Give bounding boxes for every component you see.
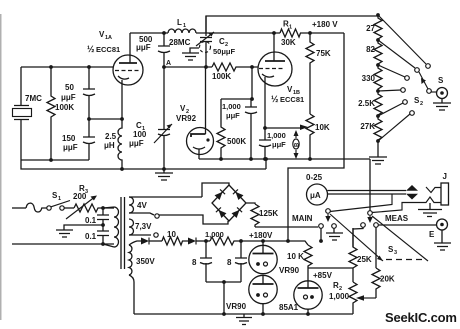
node junction 27/82 bbox=[376, 38, 380, 42]
bridge diode UL bbox=[215, 189, 226, 200]
svg-text:50μμF: 50μμF bbox=[213, 47, 236, 56]
node junction grid/1000pF bbox=[250, 65, 254, 69]
jack spring lower bbox=[421, 197, 441, 203]
resistor 10K psu bbox=[304, 245, 312, 281]
svg-text:MAIN: MAIN bbox=[292, 214, 313, 223]
svg-text:1,000: 1,000 bbox=[205, 230, 224, 239]
ground (E terminal) bbox=[434, 230, 451, 250]
ground (psu rail) bbox=[236, 314, 252, 325]
svg-text:1: 1 bbox=[289, 25, 292, 31]
capacitor C2 50uuF variable bbox=[200, 16, 212, 67]
switch S3 link diagonal right bbox=[372, 216, 428, 261]
svg-text:1A: 1A bbox=[105, 35, 112, 41]
node junction filter cap 2 bbox=[239, 239, 243, 243]
wiper arrow MEAS bbox=[369, 216, 371, 218]
capacitor 0.1 (lower) bbox=[97, 231, 109, 244]
resistor 82 bbox=[374, 40, 382, 65]
node junction 75K top bbox=[308, 31, 312, 35]
tube V1A 1/2 ECC81 bbox=[113, 55, 143, 85]
wiper arrow MAIN bbox=[327, 214, 329, 217]
wire cathode bus V2 bbox=[199, 158, 370, 160]
svg-text:1: 1 bbox=[58, 196, 61, 202]
measure arrows (B) bbox=[295, 134, 297, 156]
jack spring upper bbox=[426, 187, 441, 193]
wire MEAS right to 20K bbox=[375, 228, 377, 269]
wire RF takeoff rail bbox=[206, 16, 378, 33]
svg-text:28MC: 28MC bbox=[169, 38, 191, 47]
node junction 288 bbox=[286, 239, 290, 243]
resistor 20K bbox=[372, 268, 380, 298]
resistor 100K (grid leak) bbox=[47, 67, 55, 160]
contact MEAS left bbox=[361, 223, 366, 228]
svg-text:L: L bbox=[177, 18, 182, 27]
switch S1 bbox=[47, 206, 51, 210]
node junction 500K bottom bbox=[219, 157, 223, 161]
contact S2 pos6 bbox=[410, 111, 415, 116]
jack contact arrow up bbox=[406, 185, 418, 191]
ground (line filter) bbox=[56, 225, 103, 237]
svg-text:μμF: μμF bbox=[129, 139, 144, 148]
svg-text:μμF: μμF bbox=[272, 140, 286, 149]
inductor L1 28MC bbox=[168, 29, 196, 33]
contact S2 pos2 bbox=[415, 68, 420, 73]
wire node A to grid V1B bbox=[164, 66, 212, 68]
tube VR90 lower bbox=[249, 275, 277, 303]
resistor 1000 (filter) bbox=[210, 237, 288, 245]
svg-text:82: 82 bbox=[366, 45, 375, 54]
ground (main bus) bbox=[155, 169, 173, 180]
svg-text:μμF: μμF bbox=[63, 143, 78, 152]
svg-text:1,000: 1,000 bbox=[329, 292, 350, 301]
svg-text:10K: 10K bbox=[315, 123, 330, 132]
wire MEAS to E bbox=[378, 224, 437, 226]
svg-text:20K: 20K bbox=[380, 275, 395, 284]
wire 125K to MAIN contact bbox=[255, 226, 318, 228]
wire grid bus left (V1A grid) bbox=[21, 66, 113, 68]
SECTION: meter and switches bbox=[292, 159, 451, 268]
wire 350V bottom return bbox=[129, 275, 134, 314]
wire tap diagonal 6 bbox=[378, 114, 410, 141]
node junction 1000pF bottom bbox=[249, 157, 253, 161]
svg-text:B: B bbox=[295, 142, 301, 147]
svg-text:8: 8 bbox=[192, 258, 197, 267]
transformer T1 7.3V winding bbox=[129, 219, 134, 235]
SECTION: power supply bottom-left bbox=[12, 183, 353, 325]
switch S2 wiper bbox=[427, 89, 432, 94]
svg-text:2.5K: 2.5K bbox=[358, 99, 375, 108]
wire C1 branch bbox=[163, 67, 165, 129]
svg-text:7,3V: 7,3V bbox=[135, 222, 152, 231]
wire to ground bus bbox=[21, 160, 266, 169]
contact MAIN pole bbox=[326, 209, 331, 214]
bridge diode LR bbox=[232, 207, 243, 218]
node junction caps return bbox=[222, 312, 226, 316]
svg-text:½: ½ bbox=[271, 94, 279, 104]
transformer T1 4V winding bbox=[129, 197, 134, 213]
wire to transformer primary top bbox=[103, 207, 114, 209]
contact MAIN right bbox=[332, 224, 337, 229]
capacitor 8uF no2 bbox=[235, 241, 247, 282]
svg-text:μH: μH bbox=[104, 141, 115, 150]
bridge rectifier input wire 1 bbox=[202, 183, 229, 197]
node junction C1 bottom bbox=[162, 167, 166, 171]
SECTION: oscillator top-left bbox=[13, 16, 379, 180]
node junction rail/chain top bbox=[376, 13, 380, 17]
svg-text:μμF: μμF bbox=[226, 111, 240, 120]
bridge rectifier input wire 2 bbox=[159, 215, 228, 224]
node junction 82/330 bbox=[376, 63, 380, 67]
wiper arrow R2 bbox=[362, 297, 376, 299]
wire 350V to rectifier bbox=[129, 241, 141, 245]
resistor 27K bbox=[374, 116, 382, 141]
contact MEAS pole bbox=[368, 211, 373, 216]
wire mains line bottom bbox=[12, 243, 114, 245]
wire +180 feed down right bbox=[288, 33, 344, 241]
SECTION: S2 attenuator right bbox=[358, 13, 451, 164]
resistor 27 bbox=[374, 15, 382, 40]
tube V2 VR92 reactance bbox=[187, 128, 214, 155]
svg-text:0-25: 0-25 bbox=[306, 173, 323, 182]
wire tap diagonal 1 bbox=[378, 15, 426, 64]
svg-text:500K: 500K bbox=[227, 137, 246, 146]
node junction caps mid bbox=[101, 223, 105, 227]
svg-text:125K: 125K bbox=[259, 209, 278, 218]
svg-text:10 K: 10 K bbox=[287, 252, 304, 261]
wire MEAS pole to jack lower bbox=[372, 203, 421, 213]
tube 85A1 bbox=[294, 281, 322, 309]
svg-text:4V: 4V bbox=[137, 201, 147, 210]
svg-text:3: 3 bbox=[394, 250, 397, 256]
ground (C2 rotor) bbox=[182, 48, 199, 60]
resistor 100K (V1B grid stopper) bbox=[212, 63, 258, 71]
resistor 500K bbox=[217, 99, 225, 159]
node junction filter cap 1 bbox=[204, 239, 208, 243]
svg-text:VR90: VR90 bbox=[226, 302, 247, 311]
switch S3 link dashed bbox=[386, 259, 424, 261]
diode D2 bbox=[188, 238, 196, 245]
wire tap diagonal 5 bbox=[378, 103, 403, 116]
transformer T1 primary bbox=[114, 207, 119, 247]
resistor R1 30K bbox=[280, 29, 344, 37]
node junction cathode V1B bbox=[263, 126, 267, 130]
node junction 50/150 bbox=[87, 117, 91, 121]
svg-text:7MC: 7MC bbox=[25, 94, 42, 103]
node junction line bottom bbox=[101, 242, 105, 246]
capacitor 0.1 (upper) bbox=[97, 208, 109, 231]
fuse/lamp bbox=[26, 203, 47, 212]
wire cathode bus to MEAS pole bbox=[369, 159, 371, 211]
wire 500K top bbox=[221, 67, 252, 99]
svg-text:150: 150 bbox=[62, 134, 76, 143]
wire mains line top bbox=[12, 207, 26, 209]
svg-text:μμF: μμF bbox=[61, 93, 76, 102]
node junction cath-cap bottom bbox=[263, 157, 267, 161]
scan edge artifact bbox=[0, 14, 2, 320]
svg-text:½: ½ bbox=[87, 44, 95, 54]
svg-text:350V: 350V bbox=[136, 257, 155, 266]
svg-text:27K: 27K bbox=[360, 122, 375, 131]
svg-text:+85V: +85V bbox=[313, 271, 333, 280]
svg-text:VR92: VR92 bbox=[176, 114, 197, 123]
crystal X1 7MC bbox=[14, 67, 29, 160]
jack contact arrow down bbox=[406, 194, 418, 200]
terminal 4V bbox=[155, 214, 159, 218]
svg-text:0.1: 0.1 bbox=[85, 216, 97, 225]
node junction V1B anode bbox=[272, 31, 276, 35]
capacitor 8uF no1 bbox=[200, 241, 212, 282]
svg-text:100: 100 bbox=[133, 130, 147, 139]
svg-text:1,000: 1,000 bbox=[222, 102, 241, 111]
node junction coil bottom bbox=[120, 167, 124, 171]
jack body J bbox=[441, 183, 449, 205]
node junction crystal bottom bbox=[49, 158, 53, 162]
wire MEAS left to 25K bbox=[353, 228, 363, 248]
svg-text:+180 V: +180 V bbox=[312, 20, 338, 29]
resistor 2.5K bbox=[374, 91, 382, 116]
wire +85V node bbox=[308, 267, 353, 269]
capacitor C1 100uuF variable bbox=[158, 130, 170, 170]
node junction 10K bottom bbox=[308, 157, 312, 161]
bridge diode UR bbox=[233, 189, 244, 200]
transformer T1 core bbox=[121, 197, 125, 269]
resistor 25K bbox=[349, 228, 357, 282]
wire anode top bbox=[130, 32, 280, 34]
wire crystal bottom bus bbox=[21, 159, 89, 161]
ground (jack) bbox=[418, 203, 442, 217]
svg-text:0.1: 0.1 bbox=[85, 232, 97, 241]
wire MAIN left contact down bbox=[320, 229, 322, 242]
capacitor 150uuF bbox=[83, 119, 95, 160]
svg-text:MEAS: MEAS bbox=[385, 214, 409, 223]
svg-text:E: E bbox=[429, 230, 435, 239]
capacitor 500uuF bbox=[158, 33, 170, 67]
capacitor 50uuF bbox=[83, 67, 95, 119]
terminal S bbox=[437, 88, 448, 99]
capacitor 1000uuF (grid) bbox=[245, 99, 257, 159]
wire ground bus riser bbox=[265, 159, 267, 169]
terminal 7.3V bbox=[154, 233, 158, 237]
contact MAIN left bbox=[319, 224, 324, 229]
svg-text:1: 1 bbox=[183, 23, 186, 29]
wire tap diagonal 4 bbox=[378, 90, 401, 91]
node junction 100K top bbox=[49, 65, 53, 69]
terminal E bbox=[437, 219, 448, 230]
node junction line cap top bbox=[101, 206, 105, 210]
wire bottom rail bbox=[134, 313, 353, 315]
svg-text:2.5: 2.5 bbox=[105, 132, 117, 141]
svg-text:S: S bbox=[438, 76, 444, 85]
svg-text:VR90: VR90 bbox=[279, 266, 300, 275]
resistor R3 200 variable bbox=[74, 204, 103, 212]
svg-text:75K: 75K bbox=[316, 49, 331, 58]
bridge rectifier diamond bbox=[212, 185, 246, 221]
wire MAIN pole to meter line bbox=[330, 194, 392, 212]
bridge diode LL bbox=[216, 207, 227, 218]
ground (chain) bbox=[369, 141, 387, 164]
wire tap diagonal 2 bbox=[378, 40, 415, 68]
svg-text:30K: 30K bbox=[281, 38, 296, 47]
svg-text:2: 2 bbox=[420, 101, 423, 107]
resistor 330 bbox=[374, 65, 382, 91]
svg-text:8: 8 bbox=[227, 258, 232, 267]
svg-text:330: 330 bbox=[362, 74, 376, 83]
contact MEAS right bbox=[374, 223, 379, 228]
wire +180 to 10K psu bbox=[288, 241, 308, 245]
svg-text:SeekIC.com: SeekIC.com bbox=[385, 310, 457, 325]
node junction 50pF top bbox=[87, 65, 91, 69]
svg-text:μμF: μμF bbox=[136, 43, 151, 52]
resistor 125K bbox=[251, 204, 259, 227]
svg-text:ECC81: ECC81 bbox=[96, 45, 120, 54]
wire meter to jack upper bbox=[328, 190, 407, 192]
ground (MAIN right contact) bbox=[326, 229, 343, 241]
resistor 10K potentiometer bbox=[306, 114, 314, 159]
inductor 2.5uH bbox=[118, 80, 122, 169]
tube VR90 upper bbox=[249, 245, 277, 273]
SECTION: v1b and plate circuit bbox=[217, 20, 344, 242]
contact S2 pos4 bbox=[401, 88, 406, 93]
svg-text:A: A bbox=[166, 60, 171, 67]
node junction chain bottom bbox=[376, 139, 380, 143]
contact S2 pos1 bbox=[426, 64, 431, 69]
ground (S terminal) bbox=[433, 99, 451, 111]
node junction cathode bbox=[120, 117, 124, 121]
resistor R2 1000 potentiometer bbox=[349, 282, 357, 314]
wire meter to jack lower bbox=[328, 193, 407, 195]
tube V1B 1/2 ECC81 bbox=[258, 52, 292, 86]
svg-text:+180V: +180V bbox=[249, 231, 273, 240]
node junction 330/2.5K bbox=[376, 89, 380, 93]
svg-text:50: 50 bbox=[65, 83, 74, 92]
svg-text:85A1: 85A1 bbox=[279, 303, 299, 312]
svg-text:100K: 100K bbox=[55, 103, 74, 112]
SECTION: regulators bottom-middle bbox=[226, 228, 395, 316]
switch S3 link diagonal left bbox=[330, 214, 383, 261]
svg-text:1,000: 1,000 bbox=[267, 131, 286, 140]
transformer T1 350V winding bbox=[129, 245, 132, 275]
wire bridge output bbox=[246, 203, 255, 204]
wire tap diagonal 3 bbox=[378, 65, 405, 77]
wire cathode junction bbox=[89, 118, 122, 120]
contact S2 pos3 bbox=[405, 76, 410, 81]
svg-text:μA: μA bbox=[310, 191, 321, 200]
wire caps common bbox=[206, 282, 241, 314]
diode D1 bbox=[141, 238, 149, 245]
svg-text:25K: 25K bbox=[357, 255, 372, 264]
wiper arrow to 10K bbox=[265, 127, 301, 129]
resistor 75K bbox=[306, 33, 314, 114]
svg-text:J: J bbox=[443, 172, 447, 181]
svg-text:27: 27 bbox=[366, 24, 375, 33]
resistor 10 bbox=[162, 237, 188, 245]
svg-text:10: 10 bbox=[167, 230, 176, 239]
capacitor 1000uuF (cathode) bbox=[259, 128, 271, 159]
contact S2 pos5 bbox=[403, 100, 408, 105]
svg-text:ECC81: ECC81 bbox=[280, 95, 304, 104]
svg-text:100K: 100K bbox=[212, 72, 231, 81]
node junction 2.5K/27K bbox=[376, 114, 380, 118]
svg-text:200: 200 bbox=[73, 192, 87, 201]
node junction C2 bottom / V2 anode bbox=[204, 65, 208, 69]
